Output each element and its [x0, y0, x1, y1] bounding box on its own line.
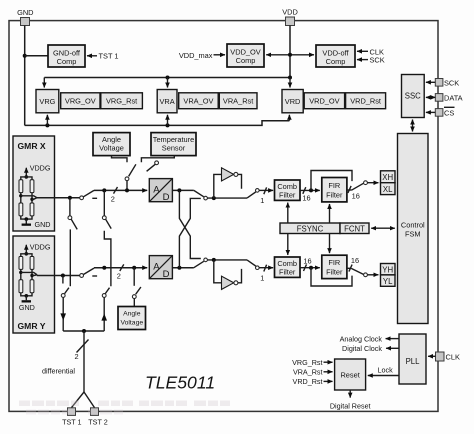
- wire bridge X mid-right: [31, 193, 33, 203]
- label 1 comb X input: [260, 196, 264, 205]
- wire chopper X rail: [207, 197, 247, 199]
- wire differential bottom bus: [63, 330, 104, 332]
- label VRG_Rst input: [292, 358, 322, 367]
- node Y rail at differential column: [102, 266, 106, 270]
- filter FIR Filter X: [322, 178, 347, 202]
- node A/D X output: [177, 188, 181, 192]
- switch GMR X to rail contact: [80, 196, 84, 200]
- svg-text:FCNT: FCNT: [344, 224, 365, 233]
- wire Analog Clock out of PLL: [386, 338, 399, 340]
- counter FCNT: [340, 223, 369, 234]
- svg-text:CLK: CLK: [446, 353, 460, 362]
- wire bridge X top rails: [21, 177, 32, 180]
- svg-text:Filter: Filter: [279, 267, 296, 276]
- ground symbol GMR X: [22, 219, 31, 226]
- svg-text:VRD: VRD: [285, 97, 301, 106]
- label CS with overline: [444, 107, 455, 117]
- switch FIR X output contact: [364, 181, 368, 185]
- inverter Y triangle: [222, 276, 238, 289]
- wire VDD node to VDD-off Comp left side: [290, 54, 314, 56]
- label TST1: [62, 418, 81, 427]
- svg-text:FSYNC: FSYNC: [297, 224, 324, 233]
- label TST2: [88, 418, 107, 427]
- DATA pad: [435, 94, 443, 102]
- GND pad label: [17, 8, 33, 17]
- label 16 comb Y output: [303, 256, 311, 265]
- status VRA_Rst: [219, 93, 257, 109]
- svg-text:A: A: [153, 261, 160, 272]
- wire VDDG arrow GMR X: [25, 168, 27, 177]
- node VDD at comparator feed: [288, 53, 292, 57]
- wire VDDG arrow GMR Y: [25, 245, 27, 254]
- svg-text:GND: GND: [17, 8, 33, 17]
- adc A/D Y: [149, 256, 172, 280]
- label GND of GMR Y: [19, 303, 35, 312]
- svg-text:Voltage: Voltage: [99, 144, 124, 153]
- svg-text:SCK: SCK: [370, 56, 385, 65]
- label VDDG of GMR X: [30, 164, 51, 173]
- watermark row 1: [19, 401, 230, 407]
- status VRD_Rst: [346, 93, 386, 109]
- switch chopper X input diagonal: [194, 190, 204, 196]
- register YH: [381, 264, 396, 275]
- node FIR X bypass tap: [309, 188, 313, 192]
- label minus X: [92, 197, 97, 199]
- wire Temperature Sensor fixed contact: [141, 156, 174, 163]
- node X rail at column2: [102, 188, 106, 192]
- wire FIR Y bypass loop: [311, 268, 352, 286]
- node bridge X left tap: [19, 194, 22, 197]
- resistor bridge Y bottom-right: [30, 280, 34, 293]
- switch column1 contact: [68, 216, 72, 220]
- reset block Reset: [335, 359, 366, 390]
- bus slash comb X output: [303, 187, 306, 194]
- wire chopper Y rail: [207, 259, 247, 261]
- block Angle Voltage bottom: [118, 307, 146, 330]
- svg-text:TST 1: TST 1: [99, 52, 119, 61]
- wire differential left drop: [69, 229, 71, 286]
- resistor bridge X bottom-right: [30, 203, 34, 216]
- svg-text:Filter: Filter: [326, 267, 343, 276]
- switch column2 blade: [106, 219, 112, 228]
- switch chopper Y input contact: [204, 258, 208, 262]
- switch temperature sensor blade: [147, 164, 156, 171]
- node bridge Y right tap: [30, 274, 33, 277]
- node VDD rail above VRA: [166, 76, 170, 80]
- wire Angle Voltage top fixed contact: [112, 156, 128, 163]
- wire bridge Y bottom rails: [21, 293, 32, 296]
- label TLE5011: [145, 373, 215, 393]
- wire inverter Y branch: [214, 260, 222, 283]
- svg-text:TST 2: TST 2: [88, 418, 107, 427]
- inverter X triangle: [222, 168, 238, 181]
- switch differential left contact: [61, 294, 65, 298]
- status VRG_Rst: [101, 93, 143, 109]
- label TST 1: [99, 52, 119, 61]
- switch chopper X output blade: [247, 192, 256, 198]
- state machine Control FSM: [398, 134, 429, 324]
- wire into Comb Filter Y: [259, 267, 273, 269]
- wire arrow down into VRA top: [167, 78, 169, 88]
- svg-text:Lock: Lock: [378, 366, 394, 375]
- svg-text:Comp: Comp: [326, 57, 346, 66]
- wire CLK pad into PLL: [428, 355, 435, 357]
- svg-text:SSC: SSC: [405, 91, 421, 100]
- label SCK: [444, 78, 459, 87]
- wire VRA_Rst into Reset: [324, 371, 333, 373]
- svg-text:VRG_Rst: VRG_Rst: [292, 358, 322, 367]
- switch chopper X input contact: [204, 196, 208, 200]
- wire bridge X mid-left: [20, 193, 22, 203]
- wire inverter Y output rise: [238, 269, 242, 283]
- svg-text:FIR: FIR: [328, 181, 340, 190]
- wire FSYNC down into Comb Y: [287, 234, 289, 255]
- switch chopper Y input diagonal: [194, 261, 204, 267]
- wire A/D Y output: [172, 267, 193, 269]
- node bridge X right tap: [30, 198, 33, 201]
- node VDD rail junction: [288, 76, 292, 80]
- filter Comb Filter Y: [275, 257, 301, 277]
- switch angle voltage X blade: [129, 164, 136, 176]
- sensor block GMR X: [13, 136, 55, 231]
- resistor bridge X bottom-left: [19, 203, 23, 216]
- block Temperature Sensor: [151, 133, 196, 156]
- wire TST drop: [83, 331, 85, 392]
- resistor bridge Y top-left: [19, 257, 23, 270]
- wire A/D X output: [172, 189, 193, 191]
- label DATA: [444, 93, 463, 102]
- svg-text:D: D: [163, 192, 170, 203]
- svg-text:Reset: Reset: [340, 370, 359, 379]
- svg-text:16: 16: [352, 191, 360, 200]
- TST2 pad: [91, 408, 99, 416]
- resistor bridge X top-left: [19, 180, 23, 193]
- wire bridge Y top rails: [21, 254, 32, 257]
- label 16 comb X output: [302, 193, 310, 202]
- label VDD_max: [179, 51, 213, 60]
- wire GND net vertical from GND pad to GND bus: [24, 26, 26, 126]
- wire Comb Y to FIR Y: [300, 267, 320, 269]
- block Angle Voltage top: [93, 133, 130, 156]
- wire inverter X branch: [214, 174, 222, 198]
- switch FIR Y output blade: [352, 269, 364, 275]
- switch chopper Y output blade: [247, 260, 256, 266]
- label 16 FIR X output: [352, 191, 360, 200]
- label Lock: [378, 366, 394, 375]
- wire arrow up into VRA bottom: [167, 115, 169, 126]
- wire VRD_Rst into Reset: [324, 380, 333, 382]
- bus slash TST: [77, 340, 89, 353]
- svg-text:Filter: Filter: [279, 190, 296, 199]
- wire bridge X taps funnel to output: [21, 196, 37, 200]
- svg-text:Digital Reset: Digital Reset: [330, 401, 371, 410]
- svg-text:16: 16: [302, 193, 310, 202]
- wire arrow down into VRD top: [289, 78, 291, 88]
- wire SCK pad into SSC: [426, 81, 435, 83]
- wire GMR Y output: [37, 275, 80, 277]
- label minus Y: [92, 275, 97, 277]
- switch GMR Y to rail blade: [83, 268, 94, 274]
- bus slash X rail: [114, 187, 118, 194]
- switch column1 blade: [71, 219, 77, 229]
- wire differential right drop jog: [104, 231, 111, 287]
- wire TST fork: [72, 392, 95, 408]
- wire crossover Y-to-X: [179, 198, 200, 267]
- svg-text:A: A: [153, 184, 160, 195]
- GND pad: [21, 18, 30, 26]
- regulator VRD: [282, 90, 303, 113]
- svg-text:PLL: PLL: [406, 357, 421, 366]
- wire bridge Y mid-left: [20, 269, 22, 279]
- CLK pad: [436, 352, 445, 361]
- wire bridge Y mid-right: [31, 269, 33, 279]
- node FIR Y bypass tap: [309, 266, 313, 270]
- node GND bus at VRG: [45, 123, 49, 127]
- svg-text:D: D: [163, 269, 170, 280]
- label 2 on Y rail: [117, 272, 121, 281]
- svg-text:Filter: Filter: [326, 190, 343, 199]
- resistor bridge Y bottom-left: [19, 280, 23, 293]
- svg-text:VRG_OV: VRG_OV: [65, 96, 96, 105]
- label Digital Clock: [342, 344, 382, 353]
- VDD pad label: [282, 8, 298, 17]
- adc A/D X: [149, 179, 172, 203]
- node GND bus at VRA: [166, 123, 170, 127]
- wire VDD net vertical from VDD pad: [289, 26, 291, 78]
- wire FIR Y output: [347, 267, 352, 269]
- wire bridge X bottom rails: [21, 216, 32, 219]
- wire Comb X to FIR X: [300, 189, 320, 191]
- regulator VRA: [157, 90, 177, 113]
- svg-text:1: 1: [260, 196, 264, 205]
- svg-text:Angle: Angle: [123, 311, 141, 318]
- switch GMR Y to rail contact: [80, 274, 84, 278]
- svg-text:VRG: VRG: [39, 97, 55, 106]
- regulator VRG: [36, 90, 59, 113]
- svg-text:TST 1: TST 1: [62, 418, 81, 427]
- ground symbol GMR Y: [22, 296, 31, 303]
- label Digital Reset: [330, 401, 371, 410]
- wire GND vertical to GND-off Comp input: [25, 55, 48, 57]
- node X rail at angle voltage tap: [125, 188, 129, 192]
- status VRD_OV: [304, 93, 344, 109]
- bus slash comb Y output: [304, 264, 307, 271]
- node bridge Y left tap: [19, 271, 22, 274]
- svg-text:GMR X: GMR X: [18, 141, 46, 151]
- svg-text:YL: YL: [383, 277, 393, 286]
- switch chopper X output contact: [255, 189, 259, 193]
- label CLK: [446, 353, 460, 362]
- wire GMR Y stub below tap: [62, 276, 64, 284]
- wire Digital Reset out of Reset: [349, 390, 351, 398]
- wire VDD_max arrow into VDD_OV Comp: [214, 54, 226, 56]
- wire angle voltage Y switch to box: [133, 299, 135, 307]
- node GMR X output tap: [68, 196, 72, 200]
- switch column2 contact: [102, 216, 106, 220]
- comparator VDD_OV Comp: [227, 44, 264, 67]
- wire Digital Clock out of PLL: [386, 347, 399, 349]
- wire inverter X output drop: [238, 174, 242, 188]
- svg-text:XH: XH: [382, 173, 393, 182]
- wire FCNT to Control FSM bidirectional: [371, 227, 395, 229]
- svg-text:Voltage: Voltage: [120, 319, 143, 326]
- svg-text:Control: Control: [401, 221, 425, 230]
- wire into XH XL registers: [367, 182, 378, 184]
- wire FSYNC down into FIR Y: [329, 234, 331, 254]
- comparator VDD-off Comp: [316, 45, 355, 67]
- wire arrow up into VRD bottom: [288, 115, 290, 121]
- interface block SSC: [402, 75, 425, 118]
- node on GND vertical feeding GND-off Comp: [23, 54, 27, 58]
- svg-text:XL: XL: [383, 185, 393, 194]
- wire TST1 input into GND-off Comp: [87, 55, 97, 57]
- wire arrow down into VRG top: [43, 78, 45, 88]
- filter Comb Filter X: [275, 180, 301, 200]
- label VRD_Rst input: [293, 377, 323, 386]
- svg-text:Comp: Comp: [57, 57, 77, 66]
- wire arrow up into VRG bottom: [46, 115, 48, 126]
- switch column2 X wire down: [103, 190, 105, 215]
- wire SCK into VDD-off Comp: [357, 59, 368, 61]
- node GMR Y output tap: [61, 274, 65, 278]
- svg-text:GMR Y: GMR Y: [18, 321, 46, 331]
- bus slash FIR Y output: [349, 265, 352, 272]
- wire differential left down to bus with arrow: [60, 297, 66, 331]
- svg-text:2: 2: [117, 272, 121, 281]
- svg-text:GND: GND: [19, 303, 35, 312]
- svg-text:SCK: SCK: [444, 78, 459, 87]
- sync block FSYNC: [280, 223, 340, 234]
- wire into Comb Filter X: [259, 189, 273, 191]
- svg-text:1: 1: [260, 273, 264, 282]
- VDD pad: [286, 17, 295, 26]
- switch differential right blade: [105, 288, 109, 294]
- wire GND bus under regulators: [25, 121, 290, 126]
- svg-text:GND: GND: [35, 220, 51, 229]
- SCK pad: [435, 79, 443, 87]
- node bridge X top: [25, 175, 29, 179]
- label 1 comb Y input: [260, 273, 264, 282]
- svg-text:VRG_Rst: VRG_Rst: [106, 96, 137, 105]
- switch FIR X output blade: [352, 183, 364, 190]
- TST1 pad: [68, 408, 76, 416]
- label VDDG of GMR Y: [30, 242, 51, 251]
- wire differential right down to bus with up arrow: [101, 297, 107, 331]
- wire DATA bidirectional with SSC: [426, 96, 435, 98]
- wire angle voltage Y fixed contact: [133, 268, 135, 286]
- label Analog Clock: [340, 334, 383, 343]
- switch GMR X to rail blade: [83, 190, 94, 196]
- wire CS pad into SSC: [426, 111, 435, 113]
- node Y rail at angle voltage tap: [132, 266, 136, 270]
- sensor block GMR Y: [13, 236, 55, 333]
- svg-text:VRA_Rst: VRA_Rst: [293, 367, 323, 376]
- wire bridge Y taps funnel to output: [21, 272, 37, 275]
- wire into YH YL registers: [367, 274, 378, 276]
- node chopper Y inverter tap: [212, 258, 216, 262]
- switch FIR Y output contact: [364, 273, 368, 277]
- label GND of GMR X: [35, 220, 51, 229]
- switch angle voltage X contact: [125, 177, 129, 181]
- wire FIR X bypass loop: [311, 171, 352, 191]
- svg-text:FIR: FIR: [328, 258, 340, 267]
- svg-text:Comp: Comp: [236, 56, 256, 65]
- bus slash FIR X output: [348, 186, 351, 193]
- wire FSYNC up into Comb X: [287, 203, 289, 223]
- svg-text:DATA: DATA: [444, 93, 463, 102]
- pll block PLL: [399, 334, 426, 384]
- comparator GND-off Comp: [48, 45, 85, 67]
- register XL: [381, 183, 396, 195]
- status VRA_OV: [179, 93, 219, 109]
- wire SSC to Control FSM bidirectional: [412, 120, 414, 132]
- label 16 FIR Y output: [351, 256, 359, 265]
- switch angle voltage Y blade: [136, 287, 141, 294]
- switch differential left blade: [65, 288, 69, 294]
- switch differential right contact: [102, 294, 106, 298]
- svg-text:VDD_max: VDD_max: [179, 51, 213, 60]
- wire VDD node to VDD_OV Comp right side: [266, 54, 290, 56]
- wire angle voltage switch to X rail: [126, 181, 128, 191]
- svg-text:VRA_Rst: VRA_Rst: [223, 96, 253, 105]
- node bridge Y bottom: [25, 294, 29, 298]
- switch angle voltage Y contact: [132, 295, 136, 299]
- resistor bridge X top-right: [30, 180, 34, 193]
- svg-text:VDDG: VDDG: [30, 242, 51, 251]
- svg-text:differential: differential: [42, 366, 75, 375]
- switch chopper Y output contact: [255, 266, 259, 270]
- svg-text:2: 2: [111, 195, 115, 204]
- label CLK at VDD-off Comp: [370, 47, 384, 56]
- wire Y rail into ADC: [94, 267, 147, 269]
- wire FSYNC up into FIR X: [329, 204, 331, 223]
- node chopper X inverter tap: [212, 196, 216, 200]
- label VRA_Rst input: [293, 367, 323, 376]
- node bridge X bottom: [25, 217, 29, 221]
- svg-text:VRD_Rst: VRD_Rst: [350, 96, 381, 105]
- svg-text:VRD_Rst: VRD_Rst: [293, 377, 323, 386]
- wire FIR X output: [347, 189, 352, 191]
- label SCK at VDD-off Comp: [370, 56, 385, 65]
- node A/D Y output: [177, 266, 181, 270]
- node bridge Y top: [25, 252, 29, 256]
- bus slash comb Y input: [264, 265, 267, 272]
- wire X rail into ADC: [94, 189, 147, 191]
- label 2 on X rail: [111, 195, 115, 204]
- svg-text:VRA_OV: VRA_OV: [183, 96, 213, 105]
- svg-text:VRD_OV: VRD_OV: [309, 96, 339, 105]
- svg-text:Analog Clock: Analog Clock: [340, 334, 383, 343]
- wire GMR X output: [37, 197, 80, 199]
- svg-text:Sensor: Sensor: [162, 144, 186, 153]
- svg-text:VDD: VDD: [282, 8, 298, 17]
- svg-text:2: 2: [74, 352, 78, 361]
- wire VDD rail feeding regulators: [44, 77, 290, 79]
- switch temperature sensor contact: [155, 161, 159, 165]
- wire crossover X-to-Y: [179, 190, 200, 258]
- svg-text:FSM: FSM: [405, 230, 421, 239]
- register XH: [381, 171, 396, 183]
- svg-text:YH: YH: [382, 266, 393, 275]
- CS pad: [435, 109, 443, 117]
- svg-text:VRA: VRA: [159, 97, 174, 106]
- bus slash comb X input: [264, 187, 267, 194]
- resistor bridge Y top-right: [30, 257, 34, 270]
- label differential: [42, 366, 75, 375]
- status VRG_OV: [61, 93, 100, 109]
- switch column1 X wire down: [69, 198, 71, 216]
- node differential bus TST tap: [82, 329, 86, 333]
